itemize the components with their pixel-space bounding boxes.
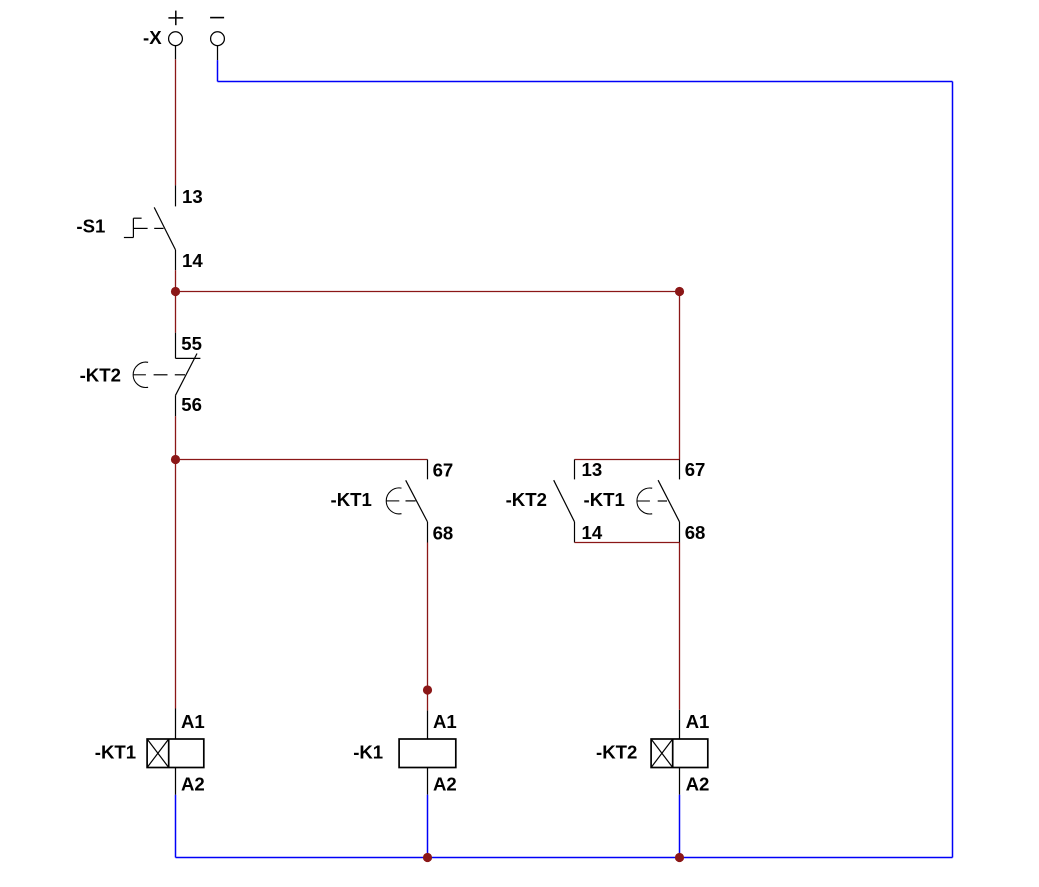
- pushbutton S1 actuator: [124, 218, 164, 237]
- timer arc of KT1 middle: [386, 488, 401, 514]
- svg-text:67: 67: [685, 459, 706, 480]
- wire top horizontal (blue): [218, 81, 953, 83]
- mechanical link dash KT1 right: [658, 500, 667, 502]
- lead below K1 coil: [427, 768, 429, 795]
- svg-text:68: 68: [433, 522, 454, 543]
- svg-text:14: 14: [182, 250, 203, 271]
- svg-text:14: 14: [582, 522, 603, 543]
- coil KT2 X mark: [651, 739, 673, 768]
- coil K1 box: [399, 739, 456, 768]
- svg-text:67: 67: [433, 459, 454, 480]
- svg-text:13: 13: [182, 186, 203, 207]
- lead below KT2 coil: [679, 768, 681, 795]
- wire bottom left riser (blue): [175, 795, 177, 858]
- svg-text:A2: A2: [181, 774, 205, 795]
- wire + to S1 (red): [175, 59, 177, 185]
- timer arc of KT1 right: [637, 488, 653, 514]
- lead from + terminal: [175, 46, 177, 59]
- wire node A to KT2 contact (red): [175, 292, 177, 333]
- svg-text:-KT2: -KT2: [80, 364, 121, 385]
- lead to KT2 coil: [679, 710, 681, 739]
- svg-text:56: 56: [181, 394, 202, 415]
- minus polarity mark: [210, 17, 224, 19]
- node C junction dot: [171, 455, 180, 464]
- wire node C down to KT1 coil (red): [175, 460, 177, 709]
- svg-text:A2: A2: [686, 774, 710, 795]
- lead from - terminal: [217, 46, 219, 60]
- contact KT1 67-68 middle (NO, on-delay): [406, 460, 428, 543]
- node A junction dot: [171, 287, 180, 296]
- wire right branch vertical (red): [679, 292, 681, 460]
- coil KT1 box: [147, 739, 204, 768]
- plus polarity mark: [168, 11, 183, 26]
- svg-text:13: 13: [582, 459, 603, 480]
- wire right branch to KT2 coil (red): [679, 543, 681, 710]
- svg-text:-KT1: -KT1: [95, 742, 136, 763]
- wire node D to K1 coil (red): [427, 690, 429, 711]
- svg-text:A2: A2: [433, 774, 457, 795]
- wire right vertical (blue): [952, 82, 954, 858]
- node F junction dot: [675, 853, 684, 862]
- svg-text:55: 55: [181, 333, 202, 354]
- node B junction dot: [675, 287, 684, 296]
- contact KT1 67-68 right (NO, on-delay): [658, 460, 679, 543]
- mechanical link dash KT1 middle: [406, 500, 416, 502]
- wire - terminal down (blue): [217, 60, 219, 81]
- wire right branch to parallel contacts (red): [575, 459, 680, 461]
- svg-text:68: 68: [685, 522, 706, 543]
- wire parallel contacts bottom (red): [575, 542, 680, 544]
- lead to K1 coil: [427, 711, 429, 739]
- wire node A horizontal (red): [176, 291, 680, 293]
- timer arc of KT2 55-56: [133, 362, 148, 387]
- svg-text:-KT2: -KT2: [596, 742, 637, 763]
- svg-text:-KT2: -KT2: [506, 489, 547, 510]
- svg-text:-KT1: -KT1: [584, 489, 625, 510]
- wire KT2 contact to node C (red): [175, 416, 177, 459]
- terminal circle -: [211, 32, 225, 46]
- lead to KT1 coil: [175, 709, 177, 740]
- contact KT2 13-14 (NO): [554, 460, 575, 543]
- contact KT2 55-56 (NC, off-delay): [176, 333, 201, 417]
- lead below KT1 coil: [175, 768, 177, 795]
- svg-text:A1: A1: [686, 711, 710, 732]
- svg-text:A1: A1: [433, 711, 457, 732]
- wire KT1 contact to node D (red): [427, 543, 429, 691]
- svg-text:-X: -X: [143, 27, 162, 48]
- wire bottom bus (blue): [176, 857, 953, 859]
- wire node C horizontal to KT1 contact (red): [176, 459, 428, 461]
- pushbutton S1 contact: [154, 185, 175, 270]
- svg-text:-KT1: -KT1: [331, 489, 372, 510]
- node D junction dot: [423, 685, 432, 694]
- wire KT2 coil to bottom bus (blue): [679, 795, 681, 858]
- node E junction dot: [423, 853, 432, 862]
- wire S1 to node A (red): [175, 270, 177, 291]
- terminal circle +: [169, 32, 183, 46]
- coil KT2 box: [651, 739, 708, 768]
- coil KT1 X mark: [147, 739, 169, 768]
- svg-text:-S1: -S1: [76, 215, 105, 236]
- mechanical link dashes KT2 55-56: [154, 374, 185, 376]
- wire K1 coil to bottom bus (blue): [427, 795, 429, 858]
- svg-text:A1: A1: [181, 711, 205, 732]
- svg-text:-K1: -K1: [353, 742, 383, 763]
